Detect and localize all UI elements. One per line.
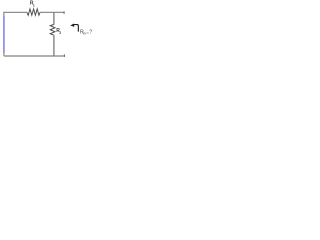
- wire middle branch upper stub: [53, 12, 55, 24]
- label R2: [56, 28, 61, 35]
- label Rin = ?: [80, 29, 92, 35]
- terminal tick top-right: [63, 11, 65, 14]
- wire left vertical blue segment: [3, 16, 5, 52]
- label R1: [30, 0, 35, 7]
- wire left vertical gray top: [3, 12, 5, 17]
- wire bottom horizontal: [4, 55, 65, 57]
- wire left vertical gray bottom: [3, 52, 5, 56]
- resistor R1 zigzag: [27, 9, 40, 15]
- arrow Rin (hooked arrow pointing left): [74, 25, 78, 32]
- resistor R2 zigzag (vertical): [50, 24, 55, 35]
- svg-text:?: ?: [89, 29, 92, 35]
- wire top-right horizontal segment: [40, 11, 64, 13]
- terminal tick bottom-right: [63, 54, 65, 57]
- wire top-left horizontal segment: [4, 11, 27, 13]
- svg-text:1: 1: [33, 3, 35, 7]
- wire middle branch lower segment: [53, 35, 55, 56]
- arrowhead: [70, 24, 74, 27]
- svg-text:2: 2: [59, 31, 61, 35]
